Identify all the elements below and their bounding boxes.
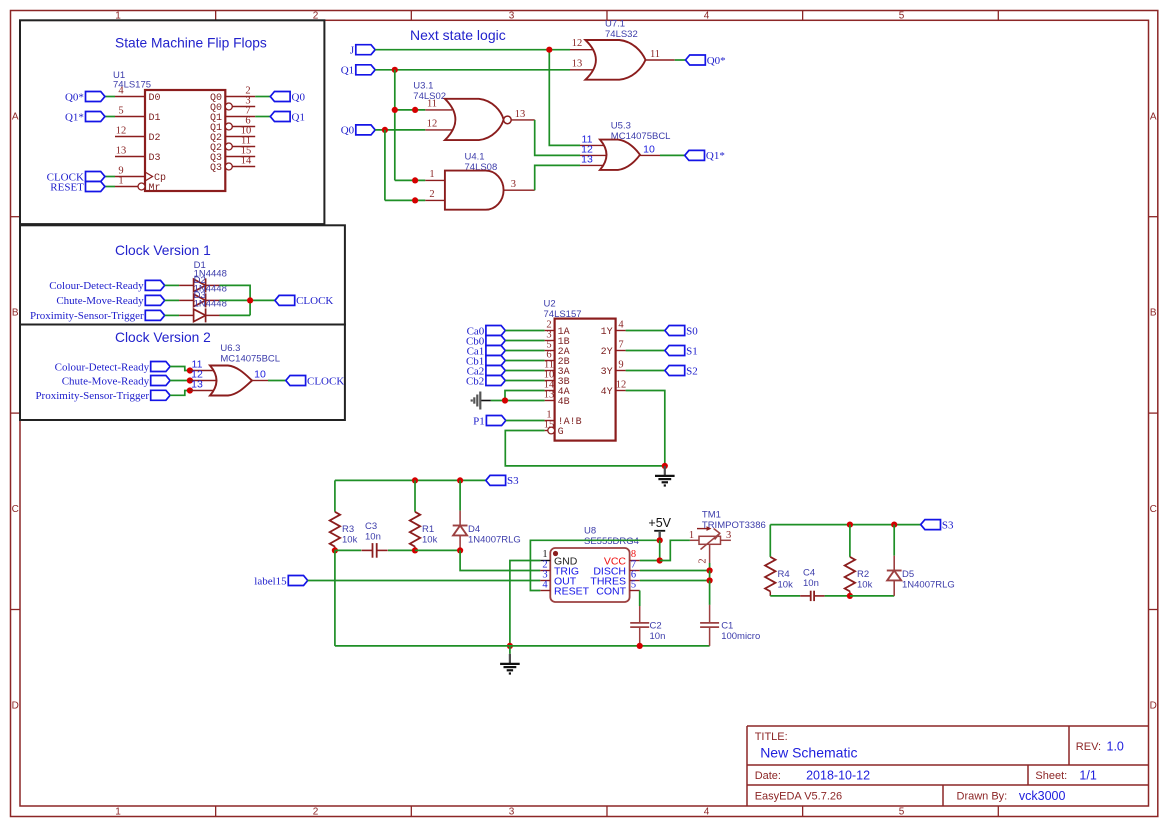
wire U3.1 out to U5.3 pin12 xyxy=(535,120,580,155)
svg-text:label15: label15 xyxy=(254,575,287,587)
resistor R2 10k xyxy=(845,557,873,596)
junction DISCH node xyxy=(707,567,713,573)
title block Drawn By field xyxy=(957,789,1066,803)
U1 pin 14 Q3-bar inverted xyxy=(210,156,255,175)
IC U8 SE555DRG4 body xyxy=(550,526,639,603)
U1 pin 12 D2 xyxy=(115,126,161,145)
U2 pin 5 2A xyxy=(545,340,570,359)
U1 pin 9 Cp clock input xyxy=(115,166,166,185)
junction Q0 branch xyxy=(382,127,388,133)
svg-text:11: 11 xyxy=(427,99,437,110)
ground symbol below U2 xyxy=(664,466,666,476)
wire J to U7.1 pin12 xyxy=(375,49,570,51)
svg-text:3: 3 xyxy=(509,807,515,818)
port Colour-Detect-Ready v1 xyxy=(145,280,164,290)
ground flag at U2 4B xyxy=(472,392,491,410)
junction U6.3 pin12 xyxy=(187,377,193,383)
U2 pin 1 !A!B xyxy=(545,410,582,429)
U2 pin 12 4Y xyxy=(601,380,627,399)
U1 pin 3 Q0-bar inverted xyxy=(210,96,255,115)
svg-text:C1: C1 xyxy=(721,621,733,632)
wire U1 Q0 to port Q0 xyxy=(255,96,270,98)
svg-text:10k: 10k xyxy=(778,580,794,591)
svg-text:4: 4 xyxy=(542,580,548,591)
svg-text:Date:: Date: xyxy=(755,770,781,782)
wire U8 THRES to node xyxy=(640,580,710,582)
wire U2 2Y to S1 xyxy=(626,350,665,352)
wire U2 1Y to S0 xyxy=(626,330,665,332)
OR gate U6.3 MC14075BCL xyxy=(190,343,280,396)
port S0 output xyxy=(665,326,685,336)
AND gate U4.1 74LS08 xyxy=(425,152,534,210)
IC U2 74LS157 body xyxy=(544,299,616,441)
svg-text:C2: C2 xyxy=(650,621,662,632)
svg-text:S2: S2 xyxy=(686,365,698,377)
wire port to D3 xyxy=(165,314,179,316)
wire D1 cathode to clock node xyxy=(220,285,251,315)
U1 pin 10 Q2 xyxy=(210,126,255,145)
svg-text:CLOCK: CLOCK xyxy=(307,375,344,387)
wire Cb1 to U2 xyxy=(505,360,544,362)
junction R1 top xyxy=(412,477,418,483)
svg-text:Proximity-Sensor-Trigger: Proximity-Sensor-Trigger xyxy=(30,310,144,322)
U2 pin 3 1B xyxy=(545,330,570,349)
box Clock Version 1 xyxy=(20,225,345,324)
wire R2 top lead xyxy=(849,525,851,557)
wire +5V down to VCC row xyxy=(659,540,661,560)
wire to U4.1 pin1 xyxy=(395,179,426,181)
svg-text:5: 5 xyxy=(899,11,905,22)
wire Q1 vertical branch xyxy=(394,70,396,181)
port Ca2 input xyxy=(486,366,505,376)
+5V power symbol xyxy=(648,516,671,540)
capacitor C1 100micro xyxy=(700,605,760,646)
junction C2 bottom xyxy=(637,643,643,649)
wire C4 to R2 bottom xyxy=(825,595,850,597)
wire gnd to U2 4B xyxy=(491,400,545,402)
junction clock v1 node xyxy=(247,297,253,303)
svg-text:Next state logic: Next state logic xyxy=(410,27,506,43)
svg-text:U3.1: U3.1 xyxy=(413,81,433,92)
wire R3 bottom to ground rail xyxy=(334,550,336,646)
svg-text:New Schematic: New Schematic xyxy=(760,745,857,761)
svg-text:3: 3 xyxy=(726,530,731,541)
svg-text:Q0*: Q0* xyxy=(65,91,84,103)
U8 pin 4 RESET xyxy=(540,580,589,598)
svg-text:10k: 10k xyxy=(422,535,438,546)
svg-text:11: 11 xyxy=(650,49,660,60)
U8 pin 3 OUT xyxy=(540,570,576,588)
svg-text:12: 12 xyxy=(616,380,627,391)
U7.1 output pin 11 xyxy=(646,59,675,61)
svg-text:+5V: +5V xyxy=(648,516,671,530)
junction ground rail at gnd symbol xyxy=(507,643,513,649)
capacitor C2 10n xyxy=(630,606,665,646)
wire Chute to U6.3 pin12 xyxy=(170,380,190,382)
wire to U3.1 pin11 xyxy=(395,109,426,111)
svg-text:100micro: 100micro xyxy=(721,631,760,642)
svg-text:10: 10 xyxy=(643,144,655,156)
U1 pin 1 Mr inverted xyxy=(115,176,161,195)
NOR gate U3.1 74LS02 xyxy=(413,81,534,141)
junction R3 bottom xyxy=(332,547,338,553)
svg-text:D1: D1 xyxy=(149,113,161,124)
port Ca1 input xyxy=(486,346,505,356)
junction D4 top xyxy=(457,477,463,483)
svg-text:RESET: RESET xyxy=(50,181,84,193)
svg-text:S3: S3 xyxy=(942,519,954,531)
ground symbol below U8 xyxy=(509,646,511,654)
svg-text:3Y: 3Y xyxy=(601,367,613,378)
U2 pin 13 4B xyxy=(544,390,570,409)
resistor R4 10k xyxy=(765,557,793,596)
junction Q1 branch xyxy=(392,67,398,73)
U8 pin 8 VCC xyxy=(604,549,640,567)
wire U8 CONT to C2 xyxy=(639,591,641,607)
port S1 output xyxy=(665,346,685,356)
wire U8 DISCH to node xyxy=(640,570,710,572)
svg-text:2018-10-12: 2018-10-12 xyxy=(806,769,870,783)
wire Ca0 to U2 xyxy=(505,330,544,332)
wire R1 bottom to D4 bottom xyxy=(415,549,460,551)
wire R3 top lead xyxy=(334,480,336,511)
svg-text:B: B xyxy=(1150,308,1157,319)
U2 pin 6 2B xyxy=(545,350,570,369)
svg-text:12: 12 xyxy=(427,119,438,130)
junction U6.3 pin13 xyxy=(187,387,193,393)
port Q1 output xyxy=(270,112,290,122)
svg-text:Q1: Q1 xyxy=(292,111,305,123)
svg-text:13: 13 xyxy=(515,109,526,120)
wire U1 Q1 to port Q1 xyxy=(255,116,270,118)
svg-text:Mr: Mr xyxy=(149,183,161,194)
svg-text:1: 1 xyxy=(429,169,434,180)
wire RESET to U1 Mr xyxy=(105,186,115,188)
svg-text:C4: C4 xyxy=(803,568,815,579)
svg-text:Cb2: Cb2 xyxy=(466,375,484,387)
svg-text:4Y: 4Y xyxy=(601,387,613,398)
wire Cb0 to U2 xyxy=(505,340,544,342)
wire TM1 pin2 to DISCH node xyxy=(709,563,711,571)
svg-text:D3: D3 xyxy=(149,153,161,164)
port CLOCK output v1 xyxy=(275,295,295,305)
wire D3 cathode to clock node xyxy=(220,314,251,316)
wire R2 bottom to D5 xyxy=(850,595,894,597)
svg-text:Q1: Q1 xyxy=(341,65,354,77)
port Q0 output xyxy=(270,92,290,102)
port S3 right xyxy=(921,520,941,530)
wire D5 top lead xyxy=(893,525,895,556)
junction 4B node xyxy=(502,397,508,403)
title block Date field xyxy=(755,769,870,783)
svg-text:R3: R3 xyxy=(342,524,354,535)
junction J branch xyxy=(546,47,552,53)
svg-text:4: 4 xyxy=(704,11,710,22)
svg-text:D0: D0 xyxy=(149,93,161,104)
svg-text:1: 1 xyxy=(118,176,123,187)
wire label15 to U8 OUT xyxy=(308,580,541,582)
svg-text:3: 3 xyxy=(511,179,516,190)
svg-text:10: 10 xyxy=(254,369,266,381)
wire R3 to C3 xyxy=(335,549,361,551)
svg-text:7: 7 xyxy=(618,340,623,351)
svg-text:S1: S1 xyxy=(686,345,698,357)
svg-text:C: C xyxy=(12,504,19,515)
junction +5V xyxy=(657,537,663,543)
port Ca0 input xyxy=(486,326,505,336)
wire P1 to U2 !A!B xyxy=(506,420,545,422)
wire CLOCK to U1 Cp xyxy=(105,176,115,178)
svg-text:5: 5 xyxy=(631,580,636,591)
svg-text:74LS157: 74LS157 xyxy=(544,309,582,320)
wire U6.3 out to CLOCK port xyxy=(268,380,286,382)
svg-text:U7.1: U7.1 xyxy=(605,19,625,30)
wire R4 top lead xyxy=(769,525,771,557)
title block TITLE field xyxy=(755,731,858,761)
svg-text:12: 12 xyxy=(116,126,127,137)
junction VCC node xyxy=(657,557,663,563)
diode D3 1N4448 xyxy=(179,290,227,323)
port label15 xyxy=(288,576,307,586)
svg-text:10n: 10n xyxy=(650,631,666,642)
svg-text:D4: D4 xyxy=(468,524,480,535)
U2 pin 15 G inverted xyxy=(544,420,564,439)
junction D4 bottom xyxy=(457,547,463,553)
svg-text:13: 13 xyxy=(581,154,593,166)
junction U4.1 pin1 xyxy=(412,177,418,183)
svg-text:MC14075BCL: MC14075BCL xyxy=(220,354,280,365)
svg-text:15: 15 xyxy=(544,420,555,431)
wire Q0* to U1 D0 xyxy=(105,96,115,98)
wire Cb2 to U2 xyxy=(505,380,544,382)
wire port to D1 xyxy=(165,284,179,286)
U2 pin 11 3A xyxy=(544,360,570,379)
wire Ca2 to U2 xyxy=(505,370,544,372)
U5.3 output pin 10 xyxy=(640,154,660,156)
svg-text:U5.3: U5.3 xyxy=(611,121,631,132)
svg-text:B: B xyxy=(12,308,19,319)
port Q0 input to logic xyxy=(356,125,375,135)
U1 pin 15 Q3 xyxy=(210,146,255,165)
port Q1 input to logic xyxy=(356,65,375,75)
svg-text:S0: S0 xyxy=(686,325,698,337)
wire U2 4Y down to ground node xyxy=(626,391,665,466)
wire S3 rail left xyxy=(335,479,486,481)
wire U2 G to ground net xyxy=(505,431,665,466)
wire D4 bottom xyxy=(459,548,461,550)
svg-text:Q3: Q3 xyxy=(210,163,222,174)
port Chute-Move-Ready v2 xyxy=(151,376,170,386)
port J input xyxy=(356,45,375,55)
svg-text:4: 4 xyxy=(118,86,124,97)
U1 pin 4 D0 xyxy=(115,86,161,105)
box Clock Version 2 xyxy=(20,325,345,421)
svg-text:1Y: 1Y xyxy=(601,327,613,338)
svg-text:U6.3: U6.3 xyxy=(220,343,240,354)
capacitor C4 10n xyxy=(800,568,824,602)
svg-text:4B: 4B xyxy=(558,397,570,408)
svg-text:TITLE:: TITLE: xyxy=(755,731,788,743)
svg-text:1N4007RLG: 1N4007RLG xyxy=(902,580,955,591)
U6.3 output pin 10 xyxy=(252,380,268,382)
TM1 pin 2 lead xyxy=(709,544,711,563)
wire U5.3 out to port Q1* xyxy=(660,154,685,156)
wire C3 to R1 bottom xyxy=(388,549,415,551)
svg-text:Colour-Detect-Ready: Colour-Detect-Ready xyxy=(49,280,144,292)
U4.1 output pin 3 xyxy=(504,189,535,191)
wire R4 bottom to C4 xyxy=(770,595,800,597)
svg-text:A: A xyxy=(1150,111,1157,122)
junction U6.3 pin11 xyxy=(187,367,193,373)
U1 pin 2 Q0 xyxy=(210,86,255,105)
svg-text:10n: 10n xyxy=(803,578,819,589)
port CLOCK input to U1 xyxy=(86,172,105,182)
svg-text:D2: D2 xyxy=(149,133,161,144)
svg-text:Clock Version 1: Clock Version 1 xyxy=(115,243,211,258)
svg-text:Chute-Move-Ready: Chute-Move-Ready xyxy=(62,375,150,387)
junction R2 bottom xyxy=(847,593,853,599)
svg-text:P1: P1 xyxy=(473,415,485,427)
svg-text:1: 1 xyxy=(689,530,694,541)
U1 pin 6 Q1-bar inverted xyxy=(210,116,255,135)
svg-text:13: 13 xyxy=(544,390,555,401)
diode D1 1N4448 xyxy=(179,260,227,293)
U2 pin 4 1Y xyxy=(601,320,626,339)
OR gate U5.3 MC14075BCL xyxy=(580,121,670,170)
diode D5 1N4007RLG xyxy=(887,556,955,596)
svg-text:4: 4 xyxy=(704,807,710,818)
U8 pin 6 THRES xyxy=(590,570,639,588)
svg-text:Proximity-Sensor-Trigger: Proximity-Sensor-Trigger xyxy=(35,390,149,402)
U8 pin 2 TRIG xyxy=(540,560,579,578)
svg-text:U4.1: U4.1 xyxy=(465,152,485,163)
svg-text:REV:: REV: xyxy=(1076,741,1101,753)
port RESET input xyxy=(86,182,105,192)
svg-text:5: 5 xyxy=(899,807,905,818)
junction U4.1 pin2 xyxy=(412,197,418,203)
U3.1 output pin 13 xyxy=(511,119,535,121)
port Cb1 input xyxy=(486,356,505,366)
U2 pin 2 1A xyxy=(545,320,570,339)
svg-text:G: G xyxy=(558,427,564,438)
U2 pin 14 4A xyxy=(544,380,570,399)
diode D2 1N4448 xyxy=(179,275,227,308)
junction R2 top xyxy=(847,522,853,528)
port Q0* output xyxy=(686,55,706,65)
port Q1* input xyxy=(86,112,105,122)
svg-text:S3: S3 xyxy=(507,475,519,487)
svg-text:C3: C3 xyxy=(365,521,377,532)
wire D4 node to U8 TRIG xyxy=(460,550,540,570)
svg-text:D: D xyxy=(1150,701,1157,712)
wire U2 3Y to S2 xyxy=(626,370,665,372)
svg-text:Q0: Q0 xyxy=(292,91,306,103)
svg-text:TRIMPOT3386: TRIMPOT3386 xyxy=(702,520,766,531)
svg-text:10k: 10k xyxy=(342,535,358,546)
U2 pin 9 3Y xyxy=(601,360,626,379)
port Chute-Move-Ready v1 xyxy=(145,295,164,305)
svg-text:SE555DRG4: SE555DRG4 xyxy=(584,536,639,547)
port Q1* output xyxy=(685,150,705,160)
svg-text:R2: R2 xyxy=(857,569,869,580)
svg-text:Colour-Detect-Ready: Colour-Detect-Ready xyxy=(55,361,150,373)
svg-text:A: A xyxy=(12,111,19,122)
wire Q1 to U7.1 pin13 xyxy=(375,69,570,71)
wire THRES node down to C1 xyxy=(709,581,711,605)
wire 4A branch xyxy=(505,391,545,401)
wire Proximity to U6.3 pin13 xyxy=(170,391,190,396)
wire J branch down to U5.3 pin11 xyxy=(549,50,580,146)
svg-text:Q1*: Q1* xyxy=(65,111,84,123)
wire R1 top lead xyxy=(414,480,416,511)
port S2 output xyxy=(665,366,685,376)
svg-text:2: 2 xyxy=(698,558,709,563)
port P1 input xyxy=(486,416,505,426)
resistor R1 10k xyxy=(410,512,438,551)
svg-text:3: 3 xyxy=(509,11,515,22)
junction D5 top xyxy=(891,522,897,528)
wire S3 rail right xyxy=(770,524,920,526)
svg-text:U2: U2 xyxy=(544,299,556,310)
svg-text:CONT: CONT xyxy=(596,585,626,597)
svg-text:9: 9 xyxy=(618,360,623,371)
port Proximity-Sensor-Trigger v2 xyxy=(151,390,170,400)
svg-text:Sheet:: Sheet: xyxy=(1035,770,1067,782)
wire VCC node to TM1 pin1 xyxy=(660,540,690,560)
wire D4 top lead xyxy=(459,480,461,510)
resistor R3 10k xyxy=(330,512,358,551)
svg-text:4: 4 xyxy=(618,320,624,331)
wire VCC RESET net xyxy=(530,540,659,590)
wire U4.1 out to U5.3 pin13 xyxy=(535,165,580,190)
diode D4 1N4007RLG xyxy=(453,511,521,548)
wire DISCH node to THRES node xyxy=(709,571,711,581)
wire to U4.1 pin2 xyxy=(385,199,425,201)
U2 pin 7 2Y xyxy=(601,340,626,359)
svg-text:13: 13 xyxy=(191,379,203,391)
svg-text:Q1*: Q1* xyxy=(706,150,725,162)
svg-text:C: C xyxy=(1150,504,1157,515)
U8 pin 5 CONT xyxy=(596,580,639,598)
svg-text:RESET: RESET xyxy=(554,585,590,597)
svg-text:1N4007RLG: 1N4007RLG xyxy=(468,535,521,546)
svg-text:J: J xyxy=(350,45,355,57)
wire U7.1 out to port Q0* xyxy=(675,59,686,61)
title block Sheet field xyxy=(1035,769,1096,783)
svg-text:R1: R1 xyxy=(422,524,434,535)
svg-text:2: 2 xyxy=(313,807,319,818)
wire Ca1 to U2 xyxy=(505,350,544,352)
svg-text:13: 13 xyxy=(572,59,583,70)
port Cb0 input xyxy=(486,336,505,346)
trimpot TM1 TRIMPOT3386 xyxy=(689,510,766,564)
svg-text:10n: 10n xyxy=(365,532,381,543)
port S3 left xyxy=(486,475,506,485)
svg-text:State Machine Flip Flops: State Machine Flip Flops xyxy=(115,36,267,51)
junction R1 bottom xyxy=(412,547,418,553)
svg-text:5: 5 xyxy=(118,106,123,117)
svg-text:1.0: 1.0 xyxy=(1107,740,1124,754)
svg-text:EasyEDA V5.7.26: EasyEDA V5.7.26 xyxy=(755,791,842,803)
svg-text:74LS32: 74LS32 xyxy=(605,29,638,40)
svg-text:D: D xyxy=(12,701,19,712)
U2 pin 10 3B xyxy=(544,370,570,389)
svg-text:8: 8 xyxy=(631,549,636,560)
U8 pin 7 DISCH xyxy=(593,560,639,578)
capacitor C3 10n xyxy=(362,521,388,558)
svg-text:13: 13 xyxy=(116,146,127,157)
box State Machine Flip Flops xyxy=(20,20,324,224)
